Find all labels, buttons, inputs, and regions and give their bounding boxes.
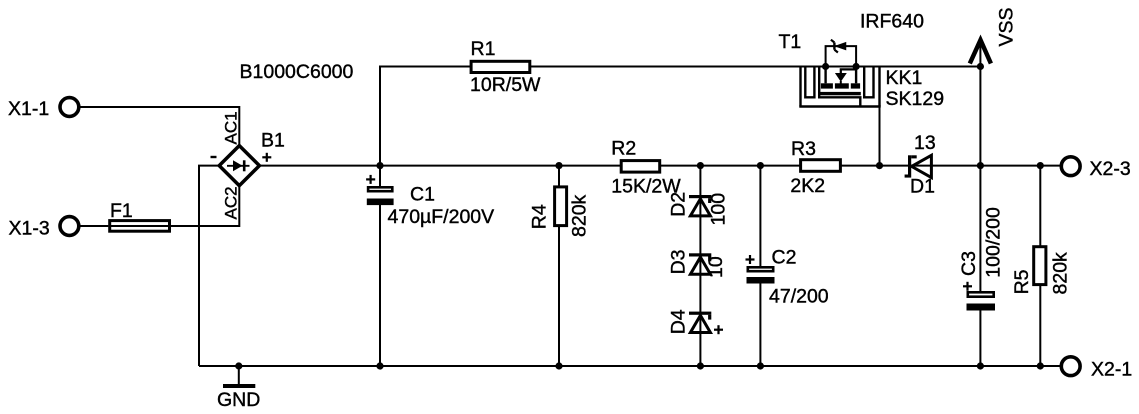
- junction node R4 top: [555, 162, 562, 169]
- heatsink KK1: [799, 67, 880, 107]
- junction node C1 top: [376, 162, 383, 169]
- ground symbol GND: [217, 366, 260, 411]
- junction node GND rail: [235, 362, 242, 369]
- svg-text:820k: 820k: [569, 194, 591, 237]
- resistor R5: [1011, 247, 1072, 295]
- svg-text:C2: C2: [772, 246, 797, 268]
- svg-text:B1000C6000: B1000C6000: [240, 61, 354, 83]
- svg-text:KK1: KK1: [886, 67, 923, 89]
- terminal X1-3: [9, 217, 79, 240]
- svg-text:13: 13: [914, 132, 936, 154]
- svg-text:X2-1: X2-1: [1091, 359, 1132, 381]
- svg-text:820k: 820k: [1050, 252, 1072, 295]
- zener diode D3: [667, 249, 727, 278]
- svg-text:R1: R1: [471, 38, 496, 60]
- svg-text:R4: R4: [529, 204, 551, 229]
- wire X1-3 to fuse: [79, 225, 108, 227]
- fuse F1: [108, 200, 171, 231]
- svg-text:IRF640: IRF640: [860, 10, 924, 32]
- zener diode D1: [905, 132, 936, 198]
- svg-text:X1-1: X1-1: [8, 98, 49, 120]
- junction node R5 top: [1037, 162, 1044, 169]
- svg-text:F1: F1: [110, 200, 133, 222]
- junction node C2 bottom: [757, 362, 764, 369]
- junction node VSS rail: [977, 162, 984, 169]
- wire middle rail: [259, 165, 1061, 167]
- bridge rectifier B1: [219, 146, 259, 186]
- svg-text:X1-3: X1-3: [9, 217, 50, 239]
- capacitor C2: [746, 246, 829, 307]
- svg-text:C1: C1: [410, 183, 435, 205]
- terminal X2-3: [1061, 157, 1130, 180]
- svg-text:X2-3: X2-3: [1090, 158, 1131, 180]
- svg-text:AC1: AC1: [222, 111, 241, 144]
- svg-text:D1: D1: [910, 176, 935, 198]
- wire top rail: [380, 67, 980, 166]
- wire R4 branch: [558, 166, 560, 366]
- svg-text:R5: R5: [1011, 269, 1033, 294]
- svg-text:D3: D3: [667, 249, 689, 274]
- svg-text:GND: GND: [217, 389, 260, 411]
- svg-text:D2: D2: [667, 192, 689, 217]
- svg-text:VSS: VSS: [996, 7, 1018, 46]
- junction node D4 bottom: [697, 362, 704, 369]
- svg-text:R3: R3: [791, 138, 816, 160]
- transistor T1 mosfet: [820, 67, 861, 96]
- terminal X1-1: [8, 98, 79, 120]
- resistor R3: [790, 138, 840, 197]
- svg-text:470µF/200V: 470µF/200V: [388, 206, 495, 228]
- T1 junction dots: [822, 63, 860, 70]
- wire C1 branch: [379, 166, 381, 366]
- wire zener chain D2 D3 D4: [699, 166, 701, 366]
- wire R5 branch: [1039, 166, 1041, 366]
- wire fuse to AC2: [171, 186, 239, 226]
- transistor T1 body diode: [826, 40, 857, 67]
- terminal X2-1: [1061, 357, 1132, 381]
- resistor R2: [611, 137, 681, 197]
- svg-text:C3: C3: [958, 251, 980, 276]
- resistor R4: [529, 187, 591, 237]
- B1 minus sign: [211, 156, 217, 158]
- wire T1 drain down: [879, 107, 881, 166]
- svg-text:B1: B1: [261, 130, 285, 152]
- svg-text:R2: R2: [611, 137, 636, 159]
- junction node T1 drain: [876, 162, 883, 169]
- svg-text:10: 10: [705, 256, 727, 278]
- B1 plus sign: [262, 153, 271, 162]
- junction node C2 top: [757, 162, 764, 169]
- svg-text:100: 100: [708, 193, 730, 226]
- junction node D2 top: [697, 162, 704, 169]
- svg-text:T1: T1: [779, 31, 802, 53]
- D4 plus sign: [714, 325, 723, 334]
- zener diode D2: [667, 192, 729, 226]
- svg-text:D4: D4: [667, 309, 689, 334]
- svg-text:10R/5W: 10R/5W: [470, 74, 541, 96]
- svg-text:47/200: 47/200: [769, 286, 829, 308]
- wire X1-1 to AC1: [79, 107, 239, 146]
- svg-text:2K2: 2K2: [790, 175, 825, 197]
- wire bottom rail: [199, 365, 1061, 367]
- capacitor C1: [366, 175, 494, 228]
- junction node VSS top: [977, 63, 984, 70]
- wire C2 branch: [759, 166, 761, 366]
- wire B1 minus to ground vertical: [199, 166, 219, 366]
- junction node C3 bottom: [977, 362, 984, 369]
- capacitor C3: [958, 207, 1005, 310]
- junction node C1 bottom: [376, 362, 383, 369]
- svg-text:AC2: AC2: [222, 186, 241, 219]
- wire VSS vertical: [979, 44, 981, 366]
- svg-text:SK129: SK129: [886, 88, 945, 110]
- junction node R4 bottom: [555, 362, 562, 369]
- junction node R5 bottom: [1037, 362, 1044, 369]
- svg-text:100/200: 100/200: [983, 207, 1005, 278]
- resistor R1: [470, 38, 541, 96]
- VSS supply arrow: [970, 7, 1018, 63]
- zener diode D4: [667, 309, 711, 334]
